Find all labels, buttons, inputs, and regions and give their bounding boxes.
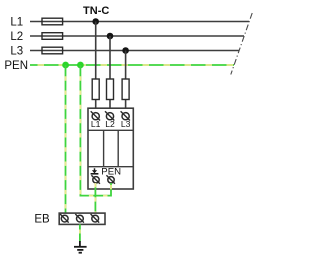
svg-text:L1: L1 [10, 16, 23, 28]
svg-text:PEN: PEN [101, 166, 121, 177]
terminal EB-3 [91, 214, 100, 223]
wire PEN tap B to SPD PEN-b (green/yellow) [80, 65, 111, 196]
fuse F6 (L3 SPD fuse) [122, 79, 129, 100]
svg-text:L3: L3 [10, 45, 23, 57]
wire L3 bus [30, 50, 239, 52]
terminal EB-1 [60, 214, 69, 223]
fuse F2 (L2 service fuse) [42, 33, 63, 40]
wire L1 drop [95, 22, 97, 113]
fuse F4 (L1 SPD fuse) [92, 79, 99, 100]
wire L1 bus [30, 21, 249, 23]
junction L1 tap [92, 18, 99, 25]
svg-text:L2: L2 [105, 119, 115, 129]
SPD divider upper [88, 129, 133, 131]
junction PEN tap A (green) [62, 62, 69, 69]
svg-text:L1: L1 [91, 119, 101, 129]
wire EB to earth (green/yellow) [79, 224, 81, 241]
junction L3 tap [122, 47, 129, 54]
wire L2 drop [109, 36, 111, 113]
wire L3 drop [125, 51, 127, 113]
terminal EB-2 [75, 214, 84, 223]
EB bar outline [59, 213, 105, 224]
boundary chain line [231, 13, 252, 75]
svg-text:L3: L3 [121, 119, 131, 129]
SPD box outline [88, 108, 133, 189]
wire PEN tap A to EB (green/yellow) [65, 65, 67, 213]
wire L2 bus [30, 35, 244, 37]
wire SPD PEN-a to EB (green/yellow) [94, 183, 96, 213]
terminal L3 of SPD [121, 111, 130, 120]
svg-text:TN-C: TN-C [83, 5, 109, 17]
wire PEN bus (green/yellow) [30, 64, 234, 66]
fuse F5 (L2 SPD fuse) [107, 79, 114, 100]
terminal PEN-b of SPD [106, 175, 115, 184]
junction PEN tap B (green) [77, 62, 84, 69]
SPD module divider 1 [103, 130, 105, 166]
SPD divider lower [88, 166, 133, 168]
junction L2 tap [107, 33, 114, 40]
fuse F3 (L3 service fuse) [42, 47, 63, 54]
terminal PEN-a of SPD [91, 175, 100, 184]
SPD module divider 2 [117, 130, 119, 166]
terminal L2 of SPD [105, 111, 114, 120]
svg-text:L2: L2 [10, 31, 23, 43]
terminal L1 of SPD [91, 111, 100, 120]
svg-text:EB: EB [34, 213, 50, 225]
fuse F1 (L1 service fuse) [42, 18, 63, 25]
PE arrow symbol in SPD [91, 168, 99, 174]
ground [74, 241, 87, 253]
svg-text:PEN: PEN [4, 60, 28, 72]
